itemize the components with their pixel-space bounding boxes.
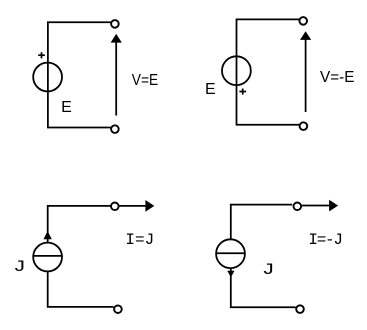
svg-text:V=-E: V=-E bbox=[320, 69, 354, 86]
svg-text:J: J bbox=[262, 261, 275, 279]
svg-text:I=-J: I=-J bbox=[308, 231, 343, 249]
svg-text:E: E bbox=[61, 99, 72, 116]
svg-text:J: J bbox=[13, 258, 26, 276]
svg-text:I=J: I=J bbox=[125, 231, 154, 249]
svg-text:V=E: V=E bbox=[132, 72, 158, 89]
svg-text:E: E bbox=[205, 81, 216, 98]
